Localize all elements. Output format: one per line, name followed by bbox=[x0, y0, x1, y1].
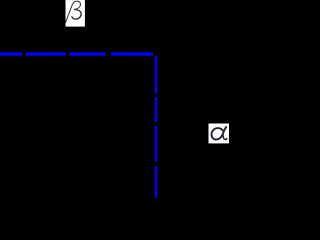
wire: vertical dash 3 bbox=[155, 126, 157, 162]
dashed vertical line (alpha threshold) bbox=[155, 56, 157, 198]
dashed horizontal line (beta threshold) bbox=[0, 52, 153, 55]
wire: vertical dash 1 bbox=[155, 56, 157, 94]
wire: horizontal dash 2 bbox=[26, 52, 66, 55]
wire: vertical dash 2 bbox=[155, 97, 157, 122]
label alpha: white box bbox=[209, 124, 230, 144]
wire: horizontal dash 1 bbox=[0, 52, 22, 55]
label beta: white box bbox=[66, 0, 85, 27]
wire: vertical dash 4 bbox=[155, 166, 157, 198]
wire: horizontal dash 3 bbox=[69, 52, 106, 55]
label alpha: glyph bbox=[212, 127, 227, 140]
label beta: glyph bbox=[65, 1, 81, 23]
wire: horizontal dash 4 bbox=[111, 52, 153, 55]
